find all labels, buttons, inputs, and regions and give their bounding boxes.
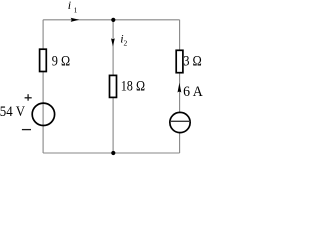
svg-text:54 V: 54 V (0, 104, 25, 120)
arrow i1 right (71, 18, 80, 22)
plus sign of source (25, 94, 32, 101)
wire right vertical (179, 20, 181, 153)
current source 6A circle (170, 112, 190, 132)
minus sign of source (22, 129, 31, 131)
svg-text:i: i (68, 0, 71, 12)
svg-text:3 Ω: 3 Ω (183, 54, 202, 70)
wire middle vertical (112, 20, 114, 153)
arrow i2 down (111, 38, 115, 46)
arrow 6A up (178, 83, 182, 93)
svg-text:2: 2 (124, 39, 128, 48)
resistor 9 ohm (40, 49, 47, 71)
resistor 18 ohm (110, 75, 117, 97)
svg-text:1: 1 (74, 5, 78, 14)
node b junction dot bottom (111, 151, 115, 155)
wire left vertical (42, 20, 44, 153)
resistor 3 ohm (176, 50, 183, 72)
voltage source 54V circle (32, 103, 54, 125)
wire bottom (43, 152, 180, 154)
node a junction dot top (111, 18, 115, 22)
svg-text:6 A: 6 A (183, 84, 203, 100)
current source bar (170, 120, 190, 122)
svg-text:9 Ω: 9 Ω (52, 54, 71, 70)
label i2 (120, 32, 127, 48)
label i1 (68, 0, 78, 14)
wire top (node a to top-right corner) (43, 19, 180, 21)
svg-text:18 Ω: 18 Ω (121, 79, 146, 95)
